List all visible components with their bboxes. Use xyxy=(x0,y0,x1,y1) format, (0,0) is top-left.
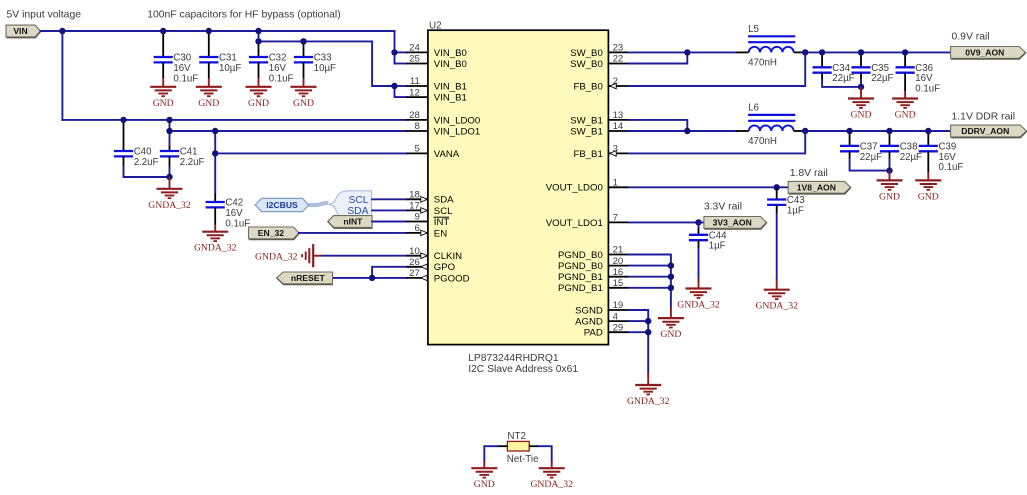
node C31 top xyxy=(206,28,212,34)
pin 29 PAD (right) xyxy=(584,322,629,338)
wire SGND bus xyxy=(629,310,648,373)
pin 28 VIN_LDO0 (left) xyxy=(407,110,481,126)
port nINT xyxy=(328,216,372,228)
ground GND under C32 xyxy=(246,78,272,109)
svg-text:1µF: 1µF xyxy=(709,241,726,252)
ground GND under C33 xyxy=(291,78,317,109)
svg-text:C37: C37 xyxy=(860,141,878,152)
wire VIN top rail xyxy=(41,30,395,32)
svg-text:L6: L6 xyxy=(748,103,759,114)
wire C43 to ground xyxy=(776,214,778,279)
node C35 top xyxy=(858,49,864,55)
svg-text:2.2uF: 2.2uF xyxy=(180,157,205,168)
svg-text:C35: C35 xyxy=(871,63,889,74)
node PGND 20 xyxy=(668,262,674,268)
wire pin 12 xyxy=(395,86,407,97)
ground GND under C31 xyxy=(196,78,222,109)
node C42 on VANA rail xyxy=(212,150,218,156)
svg-text:nRESET: nRESET xyxy=(291,273,326,283)
svg-text:VIN: VIN xyxy=(13,26,27,36)
node C41 on pin8 rail xyxy=(166,128,172,134)
wire C35 bottom xyxy=(860,73,862,80)
port DDRV_AON xyxy=(951,125,1027,137)
svg-text:22: 22 xyxy=(613,54,624,65)
ground GND for PGND xyxy=(658,307,684,340)
wire SCL to pin 18 xyxy=(372,198,406,200)
svg-text:GND: GND xyxy=(474,479,495,490)
pin 14 SW_B1 (right) xyxy=(570,121,629,137)
svg-text:U2: U2 xyxy=(429,20,442,31)
svg-text:CLKIN: CLKIN xyxy=(434,251,462,262)
ground GND under C38 xyxy=(877,171,903,203)
svg-text:C43: C43 xyxy=(787,195,805,206)
svg-text:VOUT_LDO1: VOUT_LDO1 xyxy=(546,218,603,229)
svg-text:C38: C38 xyxy=(900,141,918,152)
pin 24 VIN_B0 (left) xyxy=(407,43,467,59)
svg-text:INT: INT xyxy=(434,217,450,228)
capacitor C34 xyxy=(813,52,855,84)
wire PGND bus xyxy=(629,255,671,307)
node C37/C38 bottom tie xyxy=(886,167,892,173)
capacitor C32 xyxy=(249,41,294,84)
node C30 top xyxy=(160,28,166,34)
wire C34 bottom tie to C35 xyxy=(821,73,823,80)
svg-text:14: 14 xyxy=(613,121,624,132)
node C42 on pin8 rail xyxy=(212,128,218,134)
svg-text:VIN_B0: VIN_B0 xyxy=(434,48,467,59)
node VIN vertical xyxy=(59,28,65,34)
capacitor C30 xyxy=(154,31,199,84)
svg-text:GNDA_32: GNDA_32 xyxy=(677,300,720,311)
pin 20 PGND_B0 (right) xyxy=(558,256,629,272)
pin 2 FB_B0 (right) xyxy=(573,76,629,92)
svg-text:C36: C36 xyxy=(915,63,933,74)
pin 22 SW_B0 (right) xyxy=(570,54,629,70)
svg-text:GND: GND xyxy=(293,98,314,109)
wire drop to C32 rail xyxy=(258,31,260,41)
svg-text:18: 18 xyxy=(409,190,420,201)
port 1V8_AON xyxy=(788,181,850,193)
svg-text:16V: 16V xyxy=(939,152,957,163)
node pin11 tee xyxy=(391,83,397,89)
node drop C32 rail xyxy=(255,28,261,34)
ground GNDA_32 at NT2 right xyxy=(530,461,573,490)
wire VANA rail pin 5 xyxy=(215,152,406,154)
pin 11 VIN_B1 (left) xyxy=(407,76,467,92)
wire EN to pin 6 xyxy=(299,232,407,234)
capacitor C35 xyxy=(851,52,893,84)
wire GPO pin 26 xyxy=(372,267,406,278)
svg-text:GNDA_32: GNDA_32 xyxy=(530,479,573,490)
svg-text:GNDA_32: GNDA_32 xyxy=(255,251,298,262)
port nRESET xyxy=(277,272,333,284)
bus port I2CBUS xyxy=(255,198,308,211)
node PGND 15 xyxy=(668,285,674,291)
pin 10 CLKIN (left) xyxy=(407,246,463,262)
node C39 top xyxy=(925,128,931,134)
svg-text:SW_B1: SW_B1 xyxy=(570,115,603,126)
pin 16 PGND_B1 (right) xyxy=(558,267,629,283)
svg-text:SCL: SCL xyxy=(434,206,453,217)
wire C40 bottom tie xyxy=(124,167,170,178)
bus wire xyxy=(309,203,329,205)
node C36 top xyxy=(902,49,908,55)
power GNDA_32 rotated at CLKIN xyxy=(255,244,323,267)
node C41 top on pin28 rail xyxy=(166,117,172,123)
wire AGND pin 4 xyxy=(629,320,648,322)
port VIN xyxy=(6,25,41,37)
capacitor C37 xyxy=(840,131,882,163)
svg-text:10: 10 xyxy=(409,246,420,257)
capacitor C33 xyxy=(294,41,336,78)
svg-text:PGND_B0: PGND_B0 xyxy=(558,250,603,261)
svg-text:1V8_AON: 1V8_AON xyxy=(797,182,836,192)
node C34 top xyxy=(819,49,825,55)
svg-text:GNDA_32: GNDA_32 xyxy=(755,301,798,312)
svg-text:11: 11 xyxy=(410,76,420,87)
svg-text:C44: C44 xyxy=(709,230,727,241)
wire NT2 left lead xyxy=(498,445,508,447)
node C32 top xyxy=(255,38,261,44)
svg-text:GPO: GPO xyxy=(434,262,455,273)
wire PAD pin 29 xyxy=(629,331,648,333)
port 0V9_AON xyxy=(951,47,1026,59)
svg-text:470nH: 470nH xyxy=(748,57,777,68)
pin 7 VOUT_LDO1 (right) xyxy=(546,213,629,229)
ground GND under C30 xyxy=(150,78,176,109)
wire vertical to pins 24/25 xyxy=(394,31,396,64)
svg-text:0.9V rail: 0.9V rail xyxy=(952,32,990,43)
port 3V3_AON xyxy=(704,217,767,229)
wire SW_B1 pin 14 to rail xyxy=(629,130,736,132)
svg-text:L5: L5 xyxy=(748,24,759,35)
wire C42 vertical xyxy=(214,131,216,194)
svg-text:C39: C39 xyxy=(939,141,957,152)
pin 26 GPO (left) xyxy=(407,257,456,273)
svg-text:16V: 16V xyxy=(269,63,287,74)
wire C41 bottom xyxy=(169,167,171,178)
wire vertical to pins 11/12 xyxy=(372,41,394,86)
capacitor C36 xyxy=(896,52,941,94)
net-tie NT2 body xyxy=(507,431,539,465)
ground GND at NT2 left xyxy=(471,461,497,490)
svg-text:GNDA_32: GNDA_32 xyxy=(148,200,191,211)
svg-text:7: 7 xyxy=(613,213,618,224)
svg-text:470nH: 470nH xyxy=(748,136,777,147)
pin 13 SW_B1 (right) xyxy=(570,110,629,126)
pin 5 VANA (left) xyxy=(407,144,460,160)
capacitor C42 xyxy=(206,194,251,230)
pin 3 FB_B1 (right) xyxy=(573,144,629,160)
svg-text:I2CBUS: I2CBUS xyxy=(266,200,298,210)
capacitor C39 xyxy=(919,131,964,173)
svg-text:3.3V rail: 3.3V rail xyxy=(704,201,742,212)
wire nINT to pin 9 xyxy=(372,221,406,223)
svg-text:C34: C34 xyxy=(832,63,850,74)
wire C36 bottom xyxy=(904,73,906,91)
svg-text:SW_B0: SW_B0 xyxy=(570,48,603,59)
pin 9 INT (left) xyxy=(407,212,450,228)
svg-text:C30: C30 xyxy=(173,53,191,64)
svg-text:VIN_B1: VIN_B1 xyxy=(434,81,467,92)
svg-text:0V9_AON: 0V9_AON xyxy=(965,48,1004,58)
wire C37 bottom tie to C38 xyxy=(849,151,851,158)
ground GNDA_32 under C43 xyxy=(755,279,798,312)
ground GND under C35 xyxy=(848,87,874,121)
svg-text:16V: 16V xyxy=(225,208,243,219)
node L6 out / FB_B1 xyxy=(802,128,808,134)
op-amp U2 IC body LP873244RHDRQ1 xyxy=(428,20,609,344)
svg-text:C41: C41 xyxy=(180,147,198,158)
svg-text:24: 24 xyxy=(409,43,420,54)
ground GND under C36 xyxy=(892,91,918,121)
svg-text:PAD: PAD xyxy=(584,328,603,339)
capacitor C44 xyxy=(689,222,727,251)
svg-text:1.1V DDR rail: 1.1V DDR rail xyxy=(952,112,1016,123)
svg-text:1µF: 1µF xyxy=(787,205,804,216)
wire VIN_LDO0 rail pin 28 xyxy=(62,119,406,121)
svg-text:5V input voltage: 5V input voltage xyxy=(7,9,82,20)
svg-text:VIN_LDO1: VIN_LDO1 xyxy=(434,126,480,137)
pin 12 VIN_B1 (left) xyxy=(407,87,467,103)
inductor L5 470nH xyxy=(736,24,805,68)
svg-text:Net-Tie: Net-Tie xyxy=(507,454,539,465)
port EN_32 xyxy=(249,227,299,239)
wire VIN to LDO rail vertical xyxy=(61,31,63,120)
svg-text:16: 16 xyxy=(613,267,624,278)
svg-text:DDRV_AON: DDRV_AON xyxy=(961,126,1009,136)
wire VOUT_LDO0 pin 1 xyxy=(629,186,789,188)
svg-text:22µF: 22µF xyxy=(900,152,922,163)
svg-text:10µF: 10µF xyxy=(314,63,336,74)
pin 23 SW_B0 (right) xyxy=(570,43,629,59)
svg-text:16V: 16V xyxy=(915,73,933,84)
node C40/C41 bottom tie xyxy=(166,174,172,180)
wire PGOOD pin 27 xyxy=(333,277,406,279)
svg-text:GND: GND xyxy=(851,110,872,121)
svg-text:EN: EN xyxy=(434,228,447,239)
svg-text:PGND_B0: PGND_B0 xyxy=(558,261,603,272)
svg-text:SGND: SGND xyxy=(575,305,603,316)
pin 1 VOUT_LDO0 (right) xyxy=(546,178,629,194)
svg-text:0.1uF: 0.1uF xyxy=(939,162,964,173)
inductor L6 470nH xyxy=(736,103,805,147)
svg-text:SW_B0: SW_B0 xyxy=(570,59,603,70)
svg-text:1: 1 xyxy=(613,178,618,189)
node SW_B0 join xyxy=(684,49,690,55)
wire C39 bottom xyxy=(927,151,929,172)
svg-text:8: 8 xyxy=(414,121,419,132)
node C33 top xyxy=(300,38,306,44)
svg-text:23: 23 xyxy=(613,43,624,54)
svg-text:nINT: nINT xyxy=(343,217,363,227)
svg-text:GND: GND xyxy=(248,98,269,109)
svg-text:22µF: 22µF xyxy=(871,73,893,84)
svg-text:PGND_B1: PGND_B1 xyxy=(558,272,603,283)
wire NT2 right lead xyxy=(529,445,539,447)
svg-text:FB_B1: FB_B1 xyxy=(573,149,602,160)
node C37 top xyxy=(846,128,852,134)
node L5 out / FB_B0 xyxy=(802,49,808,55)
pin 27 PGOOD (left) xyxy=(407,268,470,284)
svg-text:100nF capacitors for HF bypass: 100nF capacitors for HF bypass (optional… xyxy=(147,9,340,20)
node C34/C35 bottom tie xyxy=(858,84,864,90)
wire VIN_LDO1 rail pin 8 xyxy=(170,130,407,132)
svg-text:PGOOD: PGOOD xyxy=(434,273,470,284)
svg-text:2.2uF: 2.2uF xyxy=(134,157,159,168)
svg-text:C42: C42 xyxy=(225,198,243,209)
svg-text:VIN_B1: VIN_B1 xyxy=(434,93,467,104)
wire SW_B0 pin 22 riser xyxy=(629,52,687,63)
wire C44 to ground xyxy=(698,249,700,278)
ground GND under C39 xyxy=(915,172,941,202)
svg-text:VANA: VANA xyxy=(434,149,460,160)
node C33 top xyxy=(300,38,306,44)
svg-text:NT2: NT2 xyxy=(507,431,526,442)
node C38 top xyxy=(886,128,892,134)
svg-text:0.1uF: 0.1uF xyxy=(225,218,250,229)
svg-text:GND: GND xyxy=(153,98,174,109)
svg-text:16V: 16V xyxy=(173,63,191,74)
node pin24 tee xyxy=(391,49,397,55)
wire VOUT_LDO1 pin 7 xyxy=(629,221,704,223)
wire C32/C33 rail xyxy=(259,40,373,42)
wire 1.1V rail xyxy=(805,130,950,132)
node SW_B1 join xyxy=(684,128,690,134)
svg-text:13: 13 xyxy=(613,110,624,121)
wire PGND pin 20 xyxy=(629,265,671,267)
svg-text:VIN_LDO0: VIN_LDO0 xyxy=(434,115,480,126)
svg-text:LP873244RHDRQ1: LP873244RHDRQ1 xyxy=(468,353,559,364)
wire C41 vertical xyxy=(169,120,171,146)
svg-text:20: 20 xyxy=(613,256,624,267)
svg-text:22µF: 22µF xyxy=(860,152,882,163)
wire pin 24 xyxy=(395,51,407,53)
wire PGND pin 15 xyxy=(629,287,671,289)
capacitor C31 xyxy=(199,31,241,78)
wire SDA to pin 17 xyxy=(372,209,406,211)
capacitor C41 xyxy=(160,146,205,168)
node C43 top xyxy=(774,184,780,190)
svg-text:22µF: 22µF xyxy=(832,73,854,84)
svg-text:SCL: SCL xyxy=(348,195,368,206)
ground GNDA_32 under C44 xyxy=(677,278,720,311)
svg-text:9: 9 xyxy=(414,212,419,223)
svg-text:0.1uF: 0.1uF xyxy=(915,84,940,95)
svg-text:12: 12 xyxy=(409,87,420,98)
wire SW_B1 pin 13 riser xyxy=(629,120,687,131)
svg-text:EN_32: EN_32 xyxy=(258,228,284,238)
svg-text:GND: GND xyxy=(198,98,219,109)
svg-text:SDA: SDA xyxy=(434,195,454,206)
svg-text:17: 17 xyxy=(409,201,420,212)
pin 17 SCL (left) xyxy=(407,201,454,217)
node PAD xyxy=(645,329,651,335)
svg-text:19: 19 xyxy=(613,300,624,311)
node GPO/PGOOD tie xyxy=(369,275,375,281)
node PGND 16 xyxy=(668,274,674,280)
wire pin 11 xyxy=(395,85,407,87)
node C44 top xyxy=(695,219,701,225)
svg-text:0.1uF: 0.1uF xyxy=(269,73,294,84)
svg-text:C40: C40 xyxy=(134,147,152,158)
svg-text:4: 4 xyxy=(613,311,619,322)
svg-text:GNDA_32: GNDA_32 xyxy=(627,396,670,407)
svg-text:C31: C31 xyxy=(219,53,237,64)
svg-text:AGND: AGND xyxy=(575,317,603,328)
pin 21 PGND_B0 (right) xyxy=(558,245,629,261)
ground GNDA_32 under C41 xyxy=(148,177,191,211)
svg-text:26: 26 xyxy=(409,257,420,268)
ground GNDA_32 under C42 xyxy=(194,225,237,254)
pin 6 EN (left) xyxy=(407,223,448,239)
svg-text:28: 28 xyxy=(409,110,420,121)
node C40 top xyxy=(120,117,126,123)
wire SW_B0 pin 23 to rail xyxy=(629,51,736,53)
svg-text:1.8V rail: 1.8V rail xyxy=(790,168,828,179)
wire CLKIN pin 10 xyxy=(323,255,407,257)
svg-text:I2C Slave Address 0x61: I2C Slave Address 0x61 xyxy=(468,364,578,375)
wire PGND pin 16 xyxy=(629,276,671,278)
svg-text:VIN_B0: VIN_B0 xyxy=(434,59,467,70)
svg-text:27: 27 xyxy=(409,268,420,279)
svg-text:GNDA_32: GNDA_32 xyxy=(194,243,237,254)
svg-text:SW_B1: SW_B1 xyxy=(570,126,603,137)
bus entry brace xyxy=(329,191,372,218)
pin 18 SDA (left) xyxy=(407,190,455,206)
svg-text:3V3_AON: 3V3_AON xyxy=(713,218,752,228)
wire FB_B1 pin 3 xyxy=(629,131,805,153)
svg-text:GND: GND xyxy=(660,329,681,340)
svg-text:GND: GND xyxy=(895,110,916,121)
pin 19 SGND (right) xyxy=(575,300,629,316)
svg-text:10µF: 10µF xyxy=(219,63,241,74)
svg-text:6: 6 xyxy=(414,223,419,234)
svg-text:PGND_B1: PGND_B1 xyxy=(558,283,603,294)
svg-text:29: 29 xyxy=(613,322,624,333)
node AGND xyxy=(645,318,651,324)
svg-text:5: 5 xyxy=(414,144,419,155)
wire C38 bottom xyxy=(889,151,891,158)
ground GNDA_32 for SGND/AGND/PAD xyxy=(627,373,670,407)
wire pin 25 xyxy=(395,63,407,65)
svg-text:C33: C33 xyxy=(314,53,332,64)
svg-text:C32: C32 xyxy=(269,53,287,64)
svg-text:FB_B0: FB_B0 xyxy=(573,81,602,92)
pin 15 PGND_B1 (right) xyxy=(558,278,629,294)
svg-text:21: 21 xyxy=(613,245,624,256)
svg-text:VOUT_LDO0: VOUT_LDO0 xyxy=(546,183,603,194)
capacitor C38 xyxy=(880,131,922,163)
svg-text:GND: GND xyxy=(879,191,900,202)
pin 25 VIN_B0 (left) xyxy=(407,54,467,70)
capacitor C43 xyxy=(767,187,805,216)
pin 4 AGND (right) xyxy=(575,311,629,327)
svg-text:GND: GND xyxy=(918,191,939,202)
svg-text:0.1uF: 0.1uF xyxy=(173,73,198,84)
svg-text:25: 25 xyxy=(409,54,420,65)
capacitor C40 xyxy=(114,120,159,168)
wire FB_B0 pin 2 xyxy=(629,52,805,86)
pin 8 VIN_LDO1 (left) xyxy=(407,121,481,137)
wire 0.9V rail xyxy=(805,51,950,53)
svg-text:15: 15 xyxy=(613,278,624,289)
